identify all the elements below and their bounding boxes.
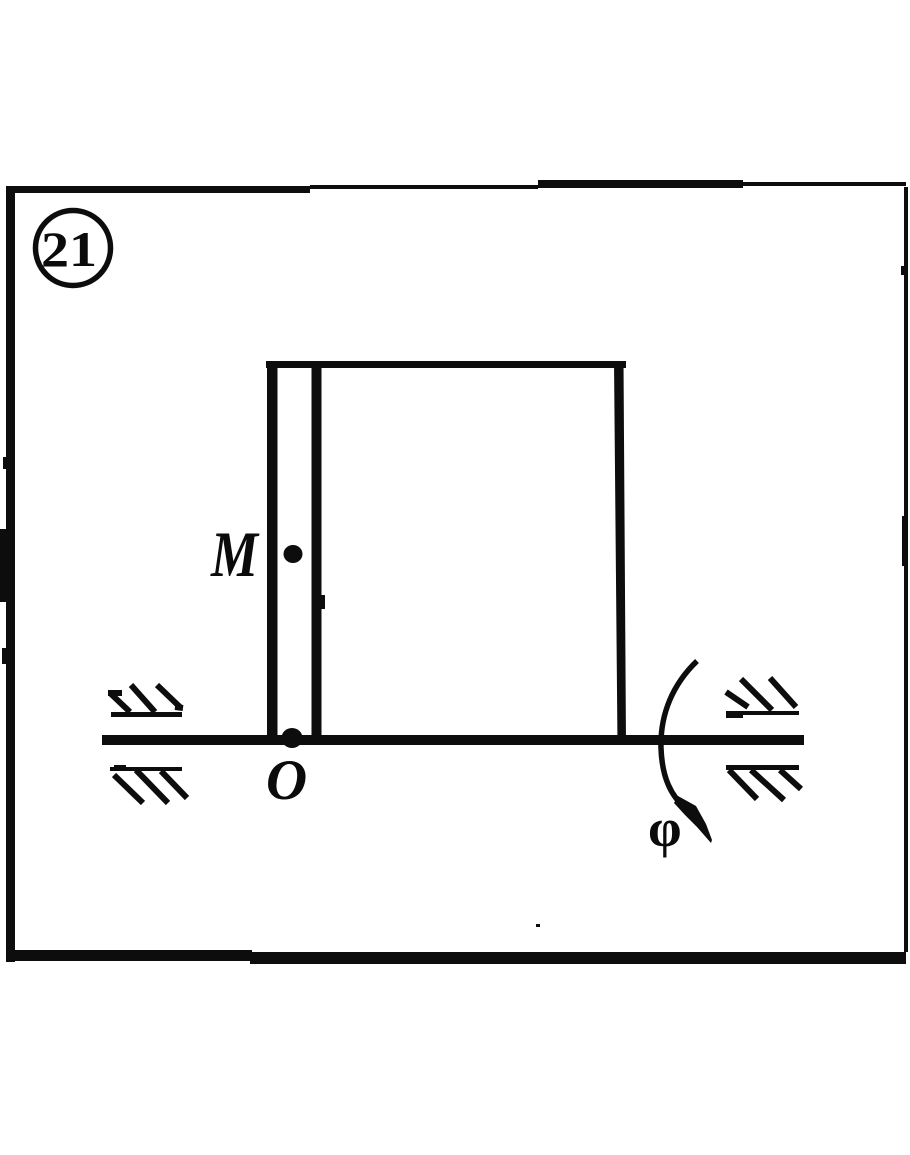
point O dot <box>282 728 303 748</box>
rotation arc <box>661 661 697 810</box>
left support lower baseline <box>110 765 182 771</box>
outer frame bottom border <box>6 950 906 964</box>
outer frame top border <box>8 180 906 193</box>
left support upper hatches <box>108 685 183 712</box>
speck right of rod <box>321 595 325 609</box>
svg-text:φ: φ <box>648 798 682 858</box>
rod left edge <box>267 361 278 745</box>
right support upper baseline <box>726 711 799 718</box>
left support lower hatches <box>114 770 187 803</box>
rotation arrowhead <box>674 796 712 843</box>
outer frame left border <box>0 186 15 962</box>
right support lower hatches <box>729 770 801 800</box>
svg-text:O: O <box>266 749 307 812</box>
right support lower baseline <box>726 765 799 770</box>
svg-text:21: 21 <box>41 221 97 277</box>
plate top edge <box>266 361 626 368</box>
svg-text:M: M <box>210 519 260 591</box>
rod right edge / plate left edge <box>312 361 322 745</box>
right support upper hatches <box>726 678 796 710</box>
speck on bottom area <box>536 924 540 927</box>
axis line <box>102 735 804 745</box>
point M dot <box>284 545 303 563</box>
left support upper baseline <box>111 712 182 717</box>
outer frame right border <box>901 187 908 952</box>
problem number badge circle <box>36 211 111 286</box>
plate right edge <box>614 361 626 745</box>
